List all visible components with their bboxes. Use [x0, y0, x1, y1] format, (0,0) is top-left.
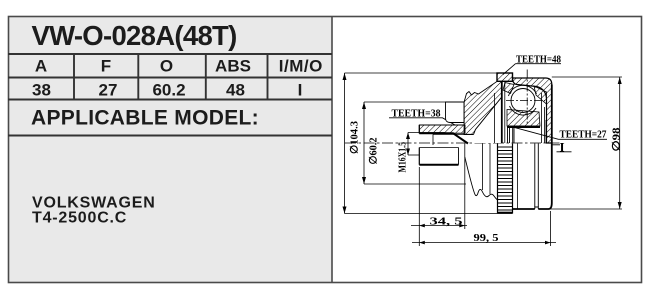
- ABS ring band right edge: [512, 144, 514, 214]
- neck cone hatched region: [464, 81, 502, 134]
- housing right face: [551, 85, 553, 204]
- housing bottom bold edge: [513, 203, 552, 209]
- table row line under header: [8, 77, 332, 79]
- svg-text:I: I: [298, 81, 303, 100]
- bell mouth inner edge vertical: [494, 93, 496, 143]
- svg-text:APPLICABLE MODEL:: APPLICABLE MODEL:: [31, 107, 259, 130]
- dimension M16: vertical line: [407, 133, 409, 156]
- panel divider: [331, 16, 333, 283]
- dimension 60.2: vertical line: [363, 102, 365, 184]
- dimension 104.3 top extension line: [345, 72, 498, 74]
- spline bore line: [433, 133, 472, 135]
- table row line under applicable model: [8, 135, 332, 137]
- svg-text:F: F: [101, 57, 111, 76]
- dimension 99.5 line: [412, 242, 556, 244]
- dimension 98 top extension line: [552, 76, 622, 78]
- ABS ring teeth rungs: [498, 147, 513, 210]
- dimension 34.5 line: [411, 225, 467, 227]
- boot seat band (white box): [446, 102, 465, 123]
- svg-text:VW-O-028A(48T): VW-O-028A(48T): [32, 20, 237, 51]
- svg-text:TEETH=27: TEETH=27: [560, 130, 607, 141]
- housing step vertical: [517, 144, 519, 210]
- label TEETH=38 leader: [389, 118, 455, 125]
- svg-text:99, 5: 99, 5: [474, 233, 499, 244]
- main centerline (dash-dot): [345, 142, 562, 144]
- boot groove wavy profile: [465, 157, 498, 200]
- stem thread relief line: [419, 147, 458, 149]
- dimension M16 bottom extension line: [408, 154, 420, 156]
- dimension 99.5 right extension: [550, 211, 552, 246]
- svg-text:34, 5: 34, 5: [430, 217, 463, 228]
- stem bottom bold edge: [419, 164, 458, 166]
- column divider 4: [267, 54, 269, 100]
- ball: [511, 89, 535, 113]
- dimension 60.2 top extension line: [364, 101, 446, 103]
- cage arc above ball: [509, 85, 537, 96]
- circlip groove verticals: [535, 144, 539, 208]
- ABS ring tab (hatched, TEETH=48): [497, 73, 513, 81]
- svg-text:TEETH=38: TEETH=38: [392, 109, 441, 120]
- ball vertical centerline: [526, 70, 528, 127]
- spline bore left edge: [432, 134, 434, 145]
- bell mouth cavity (white): [474, 97, 502, 143]
- dimension 98: vertical line: [619, 77, 621, 209]
- housing inner wall thin vertical: [504, 81, 506, 143]
- dimension 34.5 left extension: [418, 167, 420, 246]
- column divider 2: [137, 54, 139, 100]
- dimension M16 top extension line: [408, 132, 445, 134]
- svg-text:I: I: [560, 140, 565, 155]
- svg-text:∅98: ∅98: [611, 128, 623, 152]
- ABS ring bold bottom edge: [498, 212, 513, 214]
- ball horizontal centerline: [506, 100, 545, 102]
- svg-text:ABS: ABS: [215, 57, 251, 76]
- dimension 98 arrows: [618, 77, 622, 209]
- table row line under title: [8, 53, 332, 55]
- circlip groove bottom notch: [535, 207, 539, 209]
- dimension 34.5 ticks: [419, 224, 465, 228]
- hub edge verticals: [508, 127, 515, 143]
- stem right edge: [458, 148, 460, 165]
- housing wall wedge right of ball: [534, 86, 547, 104]
- svg-text:∅60.2: ∅60.2: [368, 138, 380, 165]
- dimension 60.2 bottom extension line: [364, 183, 466, 185]
- svg-text:27: 27: [99, 81, 118, 100]
- cage arc below ball: [510, 106, 537, 115]
- svg-text:M16X1.5: M16X1.5: [398, 142, 409, 173]
- dimension 104.3 arrows: [343, 73, 347, 214]
- dimension 98 bottom extension line: [549, 208, 622, 210]
- svg-text:38: 38: [32, 81, 51, 100]
- dimension M16 arrows: [406, 133, 410, 156]
- dimension 104.3 bottom extension line: [345, 213, 498, 215]
- svg-text:O: O: [160, 57, 173, 76]
- section mark I leader: [552, 145, 572, 152]
- svg-text:TEETH=48: TEETH=48: [516, 55, 561, 66]
- label TEETH=48 leader: [503, 64, 561, 75]
- boot groove verticals: [483, 144, 491, 195]
- housing outer wall section (hatched): [513, 78, 552, 143]
- bell mouth inner slope line: [474, 97, 502, 135]
- inner race spline bore bold edge (TEETH=27): [507, 126, 540, 128]
- dimension 99.5 ticks: [419, 241, 550, 245]
- column divider 1: [73, 54, 75, 100]
- svg-text:60.2: 60.2: [152, 81, 185, 100]
- housing wall wedge left of ball: [503, 83, 514, 94]
- table row line under values: [8, 99, 332, 101]
- shaft spline hatched band (TEETH=38): [419, 125, 465, 133]
- housing inner wall bold vertical: [501, 81, 503, 143]
- dimension 104.3: vertical line: [344, 73, 346, 214]
- inner race hatched wedge: [507, 110, 540, 127]
- column divider 3: [205, 54, 207, 100]
- ABS ring band left edge: [497, 144, 499, 214]
- dimension 60.2 arrows: [362, 102, 366, 184]
- svg-text:I/M/O: I/M/O: [279, 57, 323, 76]
- label TEETH=27 leader: [509, 126, 607, 139]
- svg-text:∅104.3: ∅104.3: [349, 121, 361, 154]
- stem left face: [418, 125, 420, 165]
- inner right verticals: [542, 93, 547, 143]
- svg-text:T4-2500C.C: T4-2500C.C: [32, 210, 127, 227]
- svg-text:A: A: [35, 57, 47, 76]
- svg-text:48: 48: [226, 81, 245, 100]
- spline band bold bottom edge: [419, 133, 468, 143]
- spec table panel background: [8, 16, 332, 283]
- dimension 34.5 right extension: [464, 144, 466, 230]
